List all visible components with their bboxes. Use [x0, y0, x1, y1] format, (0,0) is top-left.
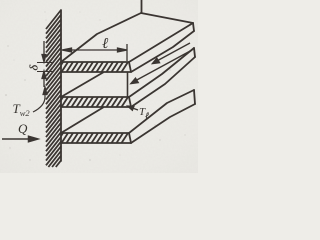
flow arrow A1 in channel	[153, 43, 191, 64]
fin F3 bottom front edge	[61, 142, 131, 144]
fin F2 top-left depth edge	[61, 73, 103, 98]
leader arrow from Tw2 to wall	[33, 87, 47, 112]
fin F3 top front edge	[61, 132, 129, 134]
leader arrow from Tl to fin edge	[128, 106, 139, 110]
fin F1 front face hatching	[61, 62, 128, 72]
fin F1 bottom front edge	[61, 71, 130, 73]
fin F2 bottom front edge	[61, 106, 130, 108]
fin F2 top front edge	[61, 96, 129, 98]
wall hatching	[46, 10, 61, 167]
fin F1 top-left depth edge	[61, 13, 141, 62]
dimension arrow for length l	[62, 44, 127, 61]
fin F3 back-right vertical edge	[194, 90, 195, 104]
fin F3 top-left depth edge	[61, 108, 103, 134]
fin F3 bottom-right depth edge	[131, 104, 195, 143]
channel back vertical between F1 and F2	[127, 73, 129, 97]
dimension arrow delta (fin thickness)	[37, 41, 54, 87]
fin F2 right end closing edge	[129, 97, 131, 107]
svg-text:Q: Q	[18, 121, 28, 136]
scan speckles	[44, 11, 45, 12]
fin F1 top-right depth edge	[129, 23, 193, 62]
fin F1 back edge	[141, 13, 193, 23]
fin F2 back-right vertical edge	[194, 48, 195, 57]
fin F1 top front edge	[61, 61, 129, 63]
svg-text:δ: δ	[27, 65, 41, 71]
fin F1 right end closing edge	[129, 62, 131, 72]
extension line right of l arrow	[126, 44, 128, 61]
flow arrow A2 in channel	[131, 50, 192, 84]
wall back vertical edge	[141, 0, 143, 13]
svg-text:ℓ: ℓ	[102, 36, 108, 52]
fin F1 back-right vertical edge	[193, 23, 194, 31]
fin F2 bottom-right depth edge	[131, 57, 195, 107]
extension ticks at fin edges	[37, 62, 54, 64]
fin F3 right end closing edge	[129, 133, 131, 143]
fin F2 top-right depth edge	[129, 48, 194, 97]
wall right edge	[60, 10, 62, 161]
fin F3 front face hatching	[61, 133, 128, 143]
heat flow arrow Q	[2, 136, 38, 142]
fin F3 top-right depth edge	[129, 90, 194, 133]
fin F2 front face hatching	[61, 97, 128, 107]
fin F1 bottom-right depth edge	[131, 31, 194, 72]
